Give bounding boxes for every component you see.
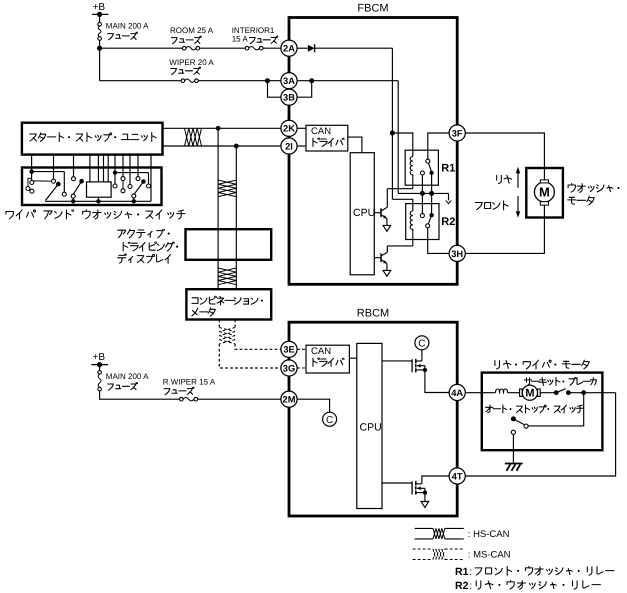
wire [508, 392, 520, 394]
junction [420, 191, 425, 196]
wires start-stop unit to wiper switch [32, 155, 151, 168]
wire [63, 172, 65, 193]
wire [129, 168, 131, 185]
label circuit breaker [524, 377, 596, 385]
contact [121, 189, 125, 193]
box washer motor [526, 168, 563, 218]
wire [148, 173, 150, 184]
label CPU [360, 421, 382, 433]
wire [72, 198, 74, 201]
wire [99, 365, 101, 371]
transistor Q2 [374, 246, 387, 271]
wire 2M to connector C [297, 399, 330, 412]
contact [132, 194, 136, 198]
legend label MS-CAN [468, 550, 511, 561]
wire bracket [28, 178, 32, 186]
label R.WIPER 15 A fuse [163, 378, 216, 395]
legend MS-CAN symbol [413, 549, 464, 560]
svg-text:ROOM 25 A: ROOM 25 A [170, 26, 214, 35]
auto-stop switch [511, 416, 528, 434]
label R2 [441, 216, 455, 228]
contact [30, 189, 34, 193]
label CAN driver [311, 346, 344, 366]
label WIPER 20 A fuse [169, 58, 214, 75]
svg-text:2M: 2M [283, 395, 296, 405]
wire [150, 168, 152, 202]
legend R2 rear washer relay [455, 580, 600, 592]
contact [128, 185, 132, 189]
wire [421, 175, 423, 193]
box rear wiper motor [482, 373, 603, 451]
terminal 2A [281, 40, 297, 56]
legend label HS-CAN [468, 529, 510, 540]
wire Q3 source to 4A [425, 370, 449, 393]
wire washer motor to 3H [465, 205, 544, 253]
svg-text::: : [469, 566, 472, 578]
wire [33, 180, 52, 182]
wire switch common bus [45, 200, 151, 202]
svg-text:2A: 2A [283, 44, 295, 54]
wire CAN to CPU [349, 357, 356, 359]
label washer motor [568, 183, 620, 204]
svg-text:R2: R2 [455, 580, 469, 592]
contact [52, 179, 56, 183]
wire [53, 168, 55, 180]
svg-text:15 A: 15 A [232, 35, 249, 44]
wire 3F to washer motor [465, 133, 544, 180]
svg-text:CAN: CAN [311, 126, 331, 137]
terminal 2I [281, 138, 297, 154]
junction [71, 199, 75, 203]
label R1 [441, 162, 455, 174]
box combination meter [186, 289, 271, 319]
wire [32, 171, 65, 173]
label FBCM [357, 3, 388, 15]
contact [147, 184, 151, 188]
relay R2 coil feed [392, 199, 412, 211]
mosfet Q4 [382, 481, 427, 495]
wire 3B inner loop [297, 81, 312, 98]
wire [115, 172, 149, 174]
svg-text:MAIN 200 A: MAIN 200 A [106, 372, 149, 381]
svg-text:FBCM: FBCM [357, 3, 388, 15]
motor M1 washer [534, 180, 554, 205]
contact [121, 177, 125, 181]
circuit breaker [554, 389, 586, 396]
contact [26, 187, 30, 191]
wire [73, 168, 75, 177]
junction [265, 78, 270, 83]
svg-text:3G: 3G [283, 363, 295, 373]
junction [390, 131, 395, 136]
label RBCM [357, 308, 389, 320]
wire [31, 168, 33, 181]
junction [97, 46, 102, 51]
svg-text:M: M [539, 185, 550, 200]
svg-text:CAN: CAN [311, 346, 331, 357]
twisted pair HS-CAN vertical [218, 268, 236, 285]
ground (Q2 emitter) [383, 270, 391, 276]
fuse INTERIOR1 15 A [245, 46, 263, 50]
wire [100, 391, 180, 399]
wire [97, 197, 99, 201]
wire MS-CAN dashed to 3E [235, 344, 281, 350]
svg-text:RBCM: RBCM [357, 308, 389, 320]
label rear (riya) [497, 175, 512, 183]
relay R1 box [405, 150, 438, 185]
svg-text:4T: 4T [452, 471, 463, 481]
contact [71, 194, 75, 198]
wire MS-CAN dashed [234, 320, 236, 328]
label rear wiper motor [495, 360, 589, 369]
mosfet Q3 [382, 359, 427, 373]
wire [198, 398, 281, 400]
twisted pair HS-CAN vertical [218, 180, 236, 197]
svg-text:3F: 3F [452, 128, 463, 138]
wire [263, 47, 281, 49]
connector C (2M) [323, 412, 337, 426]
ground (Q1 emitter) [383, 225, 391, 231]
svg-text:: HS-CAN: : HS-CAN [468, 529, 510, 540]
wire 3G dashed [297, 367, 306, 369]
label auto-stop switch [486, 405, 584, 413]
svg-text:R1: R1 [441, 162, 455, 174]
legend HS-CAN symbol [415, 528, 464, 539]
wire +B rail [315, 48, 393, 199]
switch arm washer [134, 179, 146, 194]
label wiper and washer switch [6, 210, 185, 219]
power +B (battery feed, bottom) [91, 352, 108, 367]
svg-text:3E: 3E [283, 345, 294, 355]
label MAIN 200 A fuse [106, 22, 149, 40]
fuse WIPER 20 A [181, 79, 198, 83]
svg-text:: MS-CAN: : MS-CAN [468, 550, 511, 561]
terminal 3A [281, 73, 297, 89]
svg-text:C: C [326, 415, 333, 426]
terminal 3H [449, 245, 465, 261]
wire [137, 168, 139, 177]
svg-text:2I: 2I [285, 141, 293, 151]
module RBCM box [289, 322, 457, 516]
label front (furonto) [475, 201, 508, 210]
label combination meter [192, 296, 263, 316]
box washer switch contacts [87, 182, 112, 197]
junction [29, 169, 34, 174]
label active driving display [118, 229, 179, 263]
wire CAN to CPU [348, 137, 362, 153]
box CPU (RBCM) [357, 343, 382, 508]
inductor L1 (motor armature) [496, 389, 508, 393]
wire [421, 350, 423, 361]
wire [482, 392, 496, 394]
terminal 3B [281, 89, 297, 105]
wire [217, 128, 219, 289]
relay R1 coil feed [392, 133, 412, 157]
fuse MAIN 200 A (fusible link, bottom) [98, 371, 102, 391]
contact [72, 177, 76, 181]
box active driving display [186, 229, 272, 260]
wire [200, 47, 246, 49]
fuse ROOM 25 A [182, 46, 199, 50]
wire 3E dashed [297, 348, 306, 350]
wire [198, 80, 281, 82]
label MAIN 200 A fuse [106, 372, 149, 390]
wire MS-CAN dashed [218, 320, 220, 328]
terminal 3F [449, 125, 465, 141]
diode D1 [308, 44, 315, 52]
contact [113, 184, 117, 188]
svg-text:3B: 3B [283, 93, 295, 103]
wire [235, 146, 237, 289]
terminal 4T [449, 468, 465, 484]
wire 4T to Q4 drain [422, 476, 449, 484]
svg-text:2K: 2K [283, 124, 295, 134]
junction [216, 126, 221, 131]
svg-text::: : [469, 580, 472, 592]
wire [512, 434, 514, 463]
twisted pair MS-CAN [219, 328, 235, 344]
wire [133, 198, 135, 201]
twisted pair HS-CAN [185, 128, 202, 146]
svg-text:CPU: CPU [360, 421, 382, 433]
junction [132, 199, 136, 203]
svg-text:C: C [418, 338, 425, 349]
wire [99, 14, 101, 22]
switch arm wiper [45, 182, 60, 201]
ground (chassis) [505, 464, 523, 471]
wire [122, 168, 124, 177]
wire HS-CAN high [163, 127, 282, 129]
wire [100, 47, 183, 49]
wire R2 to 3H [428, 228, 449, 254]
wire [99, 40, 101, 80]
wire rear motor to 4T [465, 393, 615, 476]
svg-text:CPU: CPU [353, 207, 375, 219]
wire MS-CAN dashed to 3G [219, 344, 281, 368]
wire [540, 392, 554, 394]
svg-text:+B: +B [93, 352, 106, 363]
box CPU (FBCM) [350, 153, 374, 275]
arrow rear (up) [516, 167, 520, 188]
wire [297, 47, 308, 49]
ground (Q4 source) [421, 502, 429, 508]
wire [584, 392, 616, 394]
svg-text:R2: R2 [441, 216, 455, 228]
terminal 3E [281, 341, 297, 357]
motor M2 rear wiper [520, 385, 541, 400]
contact [30, 181, 34, 185]
junction [96, 199, 100, 203]
svg-text:3A: 3A [283, 76, 295, 86]
svg-text:MAIN 200 A: MAIN 200 A [106, 22, 149, 31]
box CAN driver (FBCM) [306, 125, 348, 151]
svg-text:+B: +B [93, 2, 106, 13]
relay R2 coil [410, 211, 413, 246]
fuse R.WIPER 15 A [180, 397, 198, 401]
wire arrow stub [448, 193, 450, 200]
svg-text:R1: R1 [455, 566, 469, 578]
wire [297, 127, 306, 129]
label CAN driver [311, 126, 344, 146]
svg-text:WIPER 20 A: WIPER 20 A [169, 58, 214, 67]
junction [309, 78, 314, 83]
terminal 2M [281, 391, 297, 407]
contact [62, 192, 66, 196]
wire [424, 493, 426, 502]
power +B (battery feed, top) [92, 2, 108, 17]
open arrowhead [446, 200, 452, 203]
label CPU [353, 207, 375, 219]
wire HS-CAN low [163, 145, 282, 147]
wire WIPER 20A branch [100, 80, 182, 82]
wire common rail [398, 192, 448, 194]
legend R1 front washer relay [455, 566, 614, 578]
transistor Q1 [374, 189, 387, 226]
switch arm [73, 179, 84, 194]
label start-stop unit [30, 133, 156, 142]
module FBCM box [289, 18, 457, 285]
junction [429, 191, 434, 196]
terminal 2K [281, 120, 297, 136]
box start-stop unit [22, 123, 163, 155]
wire Q2 collector to R2 coil [387, 245, 413, 247]
arrow front (down) [516, 196, 520, 218]
box wiper and washer switch [22, 168, 162, 206]
svg-text:3H: 3H [451, 249, 463, 259]
svg-text:R.WIPER 15 A: R.WIPER 15 A [163, 378, 216, 387]
junction [234, 144, 239, 149]
contact [136, 177, 140, 181]
relay R2 switch [420, 213, 433, 228]
wire Q1 collector to R1 coil [387, 188, 413, 190]
label INTERIOR1 15 A fuse [232, 26, 278, 43]
junction [113, 170, 117, 174]
wire 4A to rear wiper motor [465, 392, 482, 394]
box CAN driver (RBCM) [306, 345, 349, 373]
wire 3F to R1 switch [428, 133, 449, 159]
wire [297, 145, 306, 147]
wires washer switch center [90, 168, 108, 182]
relay R1 switch [420, 159, 433, 175]
connector C (drain) [415, 336, 429, 350]
wire [421, 193, 423, 213]
wire 3A rail [297, 81, 398, 194]
wire [122, 181, 124, 189]
svg-text:4A: 4A [451, 388, 463, 398]
terminal 4A [449, 384, 465, 400]
wire [431, 175, 433, 193]
wire 3B outer loop [268, 81, 282, 98]
terminal 3G [281, 360, 297, 376]
fuse MAIN 200 A (fusible link, top) [98, 23, 102, 41]
wire [528, 393, 584, 426]
wire [431, 193, 433, 213]
relay R2 box [406, 204, 439, 240]
label ROOM 25 A fuse [170, 26, 214, 44]
relay R1 coil [410, 157, 413, 189]
svg-text:M: M [525, 388, 534, 400]
wire [114, 168, 116, 185]
